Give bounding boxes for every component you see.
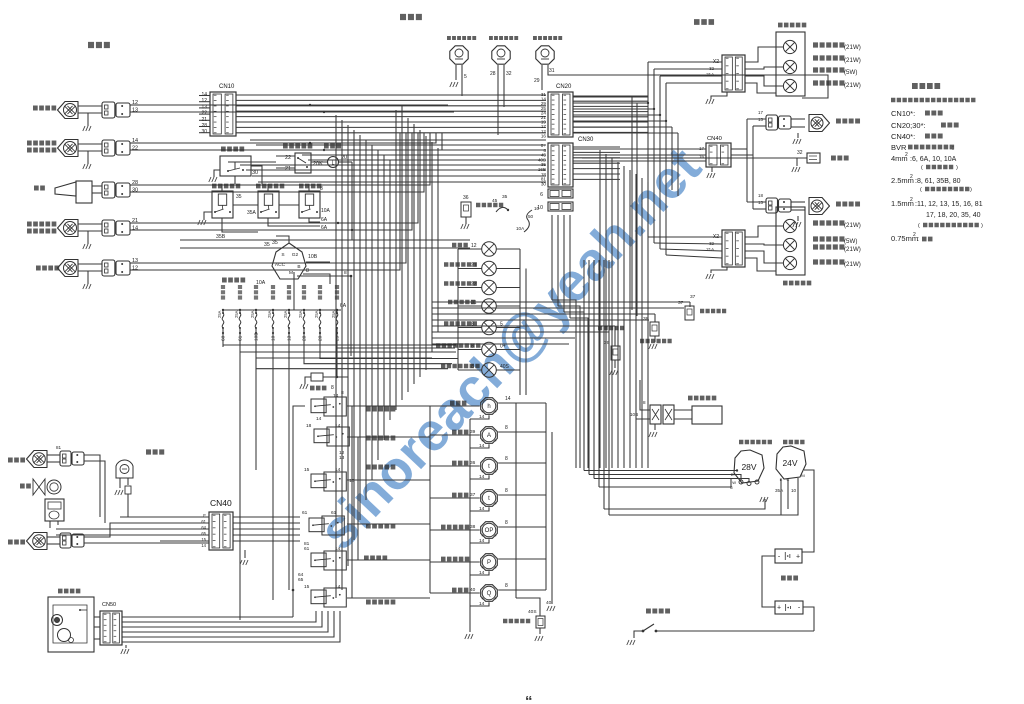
svg-text:(: ( [920, 187, 922, 193]
water temp gauge gauge [481, 490, 498, 507]
junction dots on lamp runs [309, 104, 311, 106]
svg-text:Q: Q [487, 591, 492, 597]
solenoid switch [299, 191, 320, 218]
turn lamp switch box [295, 153, 311, 173]
left front headlamp ground [87, 271, 89, 284]
svg-text:10B: 10B [308, 254, 318, 260]
svg-text:35B: 35B [216, 234, 226, 240]
svg-text:35: 35 [264, 242, 270, 248]
fuse F4 [272, 309, 274, 311]
cab lamp wires [119, 478, 121, 488]
right rear lamp label 4 [813, 80, 844, 85]
right bundle lower verticals [583, 260, 585, 300]
switch feeder wire 4 [347, 523, 430, 525]
work lamp 2 [27, 533, 48, 550]
connector CN40 cab [209, 512, 233, 550]
svg-text:38: 38 [643, 316, 649, 322]
fan switch label [364, 556, 387, 561]
resistor ground [305, 377, 311, 384]
switch feeder wire 3 [347, 479, 430, 481]
charging ground wire [604, 499, 765, 509]
svg-text:35A: 35A [775, 488, 784, 493]
label qianchejia (front frame) [88, 42, 110, 48]
left front width/turn lamp ground [87, 231, 89, 244]
fan motor wires [49, 521, 51, 528]
svg-text:37: 37 [678, 300, 684, 306]
svg-text:35A: 35A [247, 210, 257, 216]
starter feed wire [608, 300, 610, 515]
right rear work lamp connector [766, 115, 778, 130]
fuse F7 [319, 309, 321, 311]
top switch 2 wires [497, 65, 499, 135]
resistor label [310, 386, 326, 391]
oil temp gauge gauge [481, 458, 498, 475]
turn lamp switch label [283, 144, 312, 149]
fuel sensor label [476, 203, 503, 208]
svg-text:13: 13 [132, 108, 138, 114]
svg-text:14: 14 [479, 474, 485, 480]
fuse F3 label [254, 285, 258, 300]
svg-text:): ) [981, 223, 983, 229]
distribution wire h2 [256, 144, 546, 146]
CN40 cab ground [244, 550, 246, 558]
tech note intro line [891, 98, 975, 103]
rear trunk extra verticals [671, 127, 673, 190]
flasher riser [351, 162, 353, 240]
wiper motor box [48, 597, 94, 652]
svg-text:B: B [297, 264, 300, 270]
svg-text:8: 8 [505, 456, 508, 462]
svg-text:40S: 40S [528, 609, 537, 615]
svg-text:28: 28 [132, 180, 138, 186]
battery charge indicator wires [458, 349, 482, 351]
riser wire v8 [377, 150, 379, 460]
fan symbol [33, 479, 45, 495]
cab lamp symbol [116, 460, 133, 478]
CN20 to rear trunk rows [573, 96, 648, 98]
fuse F7 label [318, 285, 322, 300]
knife switch label [646, 608, 670, 613]
wire run lf width lamp [140, 133, 418, 223]
label jiashishi (cab) top [400, 14, 422, 20]
fuse box label [222, 278, 245, 283]
rear feed riser 6 [629, 170, 631, 468]
CN40 cab right wires [233, 516, 300, 518]
svg-text:2: 2 [910, 174, 913, 180]
svg-text:14: 14 [479, 570, 485, 576]
fuse F3 down wire [255, 332, 257, 334]
right front headlamp connector [102, 102, 115, 118]
svg-text:25A: 25A [250, 310, 255, 318]
riser wire v13 [407, 118, 409, 392]
svg-text:(5W): (5W) [844, 238, 857, 245]
svg-text:A: A [487, 433, 491, 439]
connector X2 upper [722, 55, 745, 92]
riser wire v9 [383, 155, 385, 440]
svg-text:(: ( [918, 223, 920, 229]
svg-text:BVR: BVR [891, 143, 907, 152]
svg-text:14: 14 [132, 226, 138, 232]
svg-text:36: 36 [463, 195, 469, 201]
high beam indicator wires [458, 248, 482, 250]
turn switch wires [276, 155, 295, 157]
fuse F2 down wire [239, 332, 241, 334]
air pressure sensor wires [516, 598, 540, 616]
svg-text:61: 61 [304, 546, 310, 552]
svg-text:(: ( [921, 165, 923, 171]
indicator column left bus [457, 249, 459, 370]
distribution wire h9 [258, 181, 546, 183]
front work-lamp switch label [366, 436, 395, 441]
engine oil pressure gauge label [441, 525, 469, 530]
left rear work lamp ground [797, 216, 799, 221]
preheat lamp switch label [489, 36, 518, 40]
fuse F7 down wire [319, 332, 321, 334]
svg-text:40: 40 [470, 587, 476, 593]
right front turn/width lamp symbol [58, 140, 79, 157]
svg-text:ACC: ACC [275, 262, 286, 268]
svg-text:8: 8 [471, 322, 474, 328]
alternator 6 wire [599, 478, 731, 487]
sensor bundle wire 5 [432, 325, 615, 327]
fuel gauge wires [430, 434, 480, 436]
svg-text:(21W): (21W) [844, 261, 861, 268]
fuse F8 label [335, 285, 339, 300]
svg-text:14: 14 [479, 414, 485, 420]
right rear work lamp label [836, 118, 860, 123]
svg-text:10: 10 [534, 206, 540, 211]
svg-text:CN50: CN50 [102, 602, 116, 608]
starter terminal wires [780, 479, 782, 515]
svg-text:6A: 6A [340, 303, 347, 309]
hot-start relay ground [204, 212, 212, 220]
battery label [781, 576, 798, 581]
svg-text:17: 17 [758, 110, 763, 115]
svg-text:61: 61 [302, 510, 308, 516]
fan motor box [45, 499, 64, 521]
left rear lamp label 1 [813, 220, 844, 225]
fan switch box [311, 553, 326, 567]
svg-text:14: 14 [479, 443, 485, 449]
fuse F1 label [221, 285, 225, 300]
svg-text:25A: 25A [283, 310, 288, 318]
oil pressure sensor [650, 322, 659, 336]
fuse collector wire D [256, 334, 448, 369]
water temp sensor label [700, 309, 726, 313]
riser wire v4 [353, 130, 355, 540]
svg-text:CN40: CN40 [210, 498, 232, 508]
sensor bundle wire 2 [432, 307, 684, 309]
svg-text:G2: G2 [292, 252, 299, 258]
CN40 rear wires right [731, 148, 747, 150]
left rear combo lamp 1 [783, 219, 796, 232]
riser wire v17 [431, 142, 433, 352]
horn button ground [214, 170, 220, 177]
water temp gauge label [452, 493, 468, 498]
fuse collector wire B [240, 351, 456, 353]
fuse F6 label [302, 285, 306, 300]
start relay label [256, 184, 284, 189]
relay interconnect wires [233, 204, 258, 206]
right front turn/width lamp ground [87, 151, 89, 164]
resistor wire [323, 377, 348, 398]
fuse F2 label [238, 285, 242, 300]
connector 10 (2-pin) [548, 202, 573, 211]
svg-text:31: 31 [549, 68, 555, 74]
left turn indicator lamp [482, 261, 497, 276]
sensor bundle wire 1 [432, 301, 690, 303]
svg-text:8: 8 [344, 270, 347, 276]
hot-start relay [212, 191, 233, 218]
high beam indicator lamp [482, 242, 497, 257]
svg-text:65: 65 [298, 577, 304, 583]
svg-text:L: L [332, 161, 335, 167]
svg-text:36: 36 [470, 460, 476, 466]
flameout solenoid connector [650, 405, 661, 424]
gauge 14 return bus [469, 419, 471, 632]
svg-text:40: 40 [546, 600, 552, 606]
fuse F4 label [271, 285, 275, 300]
svg-text::11, 12, 13, 15, 16, 81: :11, 12, 13, 15, 16, 81 [915, 201, 983, 208]
svg-text:10B: 10B [630, 412, 638, 417]
riser wire v1 [335, 115, 337, 598]
front work-lamp switch box [314, 429, 329, 443]
top switch 1 wires [455, 65, 457, 80]
svg-text:CN30: CN30 [578, 137, 594, 143]
wiper switch label [366, 600, 395, 605]
svg-text:6A: 6A [321, 225, 328, 231]
svg-text:22: 22 [132, 146, 138, 152]
switch feeder wire 1 [347, 405, 430, 407]
fuel sensor curve [496, 207, 508, 212]
svg-text:31: 31 [471, 300, 477, 306]
ignition B wire right [297, 276, 351, 356]
riser wire v14 [413, 124, 415, 384]
svg-text:12: 12 [132, 266, 138, 272]
horn symbol [55, 182, 76, 196]
svg-text:14: 14 [316, 416, 322, 422]
distribution wire h7 [246, 169, 546, 171]
air pressure warning indicator wires [458, 369, 482, 371]
air pressure sensor label [503, 619, 530, 624]
svg-text:17, 18, 20, 35, 40: 17, 18, 20, 35, 40 [926, 212, 981, 219]
gear pressure gauge wires [430, 561, 480, 563]
svg-text:24V: 24V [782, 458, 797, 468]
flameout solenoid label [688, 396, 716, 401]
top switch 3 wires [541, 65, 543, 90]
charging ground [760, 497, 768, 502]
svg-text:14: 14 [479, 601, 485, 607]
sensor bundle wire 7 [432, 337, 575, 339]
svg-text:8: 8 [505, 520, 508, 526]
fuse F2 [239, 309, 241, 311]
battery 2 [775, 601, 803, 614]
fuse collector wire A [223, 344, 456, 346]
horn connector [102, 182, 115, 198]
water temp sensor riser [689, 302, 691, 307]
CN40 rear wires left [573, 148, 706, 150]
switch feeder wire 5 [347, 559, 430, 561]
left rear combo label bottom [783, 281, 811, 286]
rear feed riser 2 [605, 154, 607, 468]
X2 lower wires left [648, 236, 722, 238]
starter M to battery wire [802, 470, 814, 552]
brake indicator label [448, 300, 475, 305]
fuel sensor 36 box [461, 202, 471, 217]
rear feed riser 4 [617, 162, 619, 468]
svg-text:35: 35 [272, 240, 278, 246]
riser wire v18 [437, 148, 439, 332]
resistor box [311, 373, 323, 381]
wiper box to CN50 wires [94, 616, 100, 618]
work lamp 1 connector [60, 451, 71, 466]
right rear lamp label 2 [813, 55, 844, 60]
brake lamp switch label [533, 36, 562, 40]
riser wire v11 [395, 110, 397, 410]
svg-text:10A: 10A [321, 208, 331, 214]
wire run lf headlamp [140, 133, 406, 263]
CN40 cab left wires [160, 516, 209, 518]
left front headlamp wires [78, 263, 102, 265]
svg-text:15: 15 [304, 467, 310, 473]
hot-oil sensor riser [614, 326, 616, 346]
svg-text:25A: 25A [298, 310, 303, 318]
right front headlamp wires [78, 105, 102, 107]
left front width/turn lamp symbol [58, 220, 79, 237]
left rear lamp label 4 [813, 259, 844, 264]
svg-text:12: 12 [132, 100, 138, 106]
svg-text:(21W): (21W) [844, 57, 861, 64]
svg-text:25A: 25A [217, 310, 222, 318]
left front headlamp label [36, 266, 59, 271]
ignition wires [276, 236, 289, 243]
right rear work lamp ground [797, 133, 799, 138]
switch feeder wire 6 [347, 597, 430, 599]
alternator feed wires [583, 300, 585, 471]
svg-text:12: 12 [471, 243, 477, 249]
horn label [34, 186, 45, 191]
alternator 28V [734, 450, 764, 483]
svg-text:25A: 25A [267, 310, 272, 318]
hour meter gauge [481, 398, 498, 415]
CN20/CN30 right fan-out wires [573, 95, 648, 97]
rear feed riser 7 [635, 174, 637, 468]
svg-text::8, 61, 35B, 80: :8, 61, 35B, 80 [915, 178, 961, 185]
svg-text::: : [952, 145, 954, 152]
work lamp 2 wires [47, 536, 60, 538]
right rear work lamp [809, 115, 830, 132]
hot-start relay label [212, 184, 240, 189]
svg-text:8: 8 [643, 400, 646, 405]
right front headlamp symbol [58, 102, 79, 119]
flasher wires [311, 161, 328, 163]
left rear work lamp connector [766, 198, 778, 213]
water temp sensor [685, 306, 694, 320]
battery interconnect wire [762, 556, 775, 607]
right front turn/width lamp connector [102, 140, 115, 156]
hot oil sensor ground [614, 360, 616, 368]
air pressure gauge label [452, 588, 468, 593]
left rear work lamp label [836, 201, 860, 206]
svg-text:CN40*:: CN40*: [891, 132, 915, 141]
park brake indicator label [444, 321, 477, 326]
fuse F6 down wire [303, 332, 305, 334]
svg-text:21: 21 [132, 218, 138, 224]
svg-text:8: 8 [505, 583, 508, 589]
oil temp gauge label [452, 461, 468, 466]
resistor riser [336, 348, 338, 377]
right rear lamp label 1 [813, 42, 844, 47]
fuel gauge label [452, 430, 468, 435]
svg-text:+: + [796, 554, 800, 561]
fan label [20, 484, 31, 489]
battery charge indicator label [436, 343, 480, 348]
right front headlamp ground [87, 113, 89, 126]
svg-text:2: 2 [905, 152, 908, 158]
sensor bundle wire 6 [432, 331, 609, 333]
solenoid switch label [299, 184, 321, 189]
rear trunk verticals [647, 62, 649, 237]
svg-text:25A: 25A [314, 310, 319, 318]
right turn indicator label [444, 281, 477, 286]
right rear combo lamp label [778, 23, 806, 28]
left front headlamp connector [102, 260, 115, 276]
distribution wire h1 [250, 139, 546, 141]
svg-text:35: 35 [502, 194, 508, 200]
wire curl 10A [524, 210, 532, 232]
hot oil sensor label [598, 326, 624, 330]
oil temp gauge wires [430, 465, 480, 467]
battery 2 negative wire [803, 607, 814, 631]
rear left edge verticals to sensors [631, 97, 633, 310]
svg-text:39: 39 [470, 429, 476, 435]
park brake indicator lamp [482, 320, 497, 335]
svg-text:30: 30 [132, 188, 138, 194]
rear feed riser 9 [647, 182, 649, 468]
horn wires [92, 185, 102, 187]
riser wire v5 [359, 135, 361, 520]
riser wire v10 [389, 160, 391, 420]
svg-text:25A: 25A [331, 310, 336, 318]
svg-text:22: 22 [471, 282, 477, 288]
svg-text:30: 30 [252, 170, 258, 176]
starter 24V [776, 446, 806, 479]
distribution wire h8 [252, 175, 546, 177]
battery charge indicator lamp [482, 342, 497, 357]
gear pressure gauge label [441, 557, 469, 562]
svg-text:h: h [487, 404, 490, 410]
sensor bundle wire 8 [432, 343, 569, 345]
label jiashishi (cab) mid-left [146, 449, 164, 454]
hour meter wires [430, 405, 480, 407]
left turn indicator label [444, 262, 477, 267]
svg-text:25A: 25A [234, 310, 239, 318]
fuse F8 [336, 309, 338, 311]
rear feed riser 5 [623, 166, 625, 468]
CN50 ground [125, 645, 127, 648]
CN30 lower bend wires [552, 300, 576, 468]
X2 upper ground [711, 92, 727, 99]
flameout solenoid ground [654, 424, 656, 430]
svg-text:18: 18 [758, 193, 763, 198]
CN50 wires right [122, 616, 293, 618]
top switch 1 [450, 46, 468, 64]
work lamp switch box [309, 518, 324, 532]
riser wire v16 [425, 136, 427, 370]
svg-text:14: 14 [132, 138, 138, 144]
switch feeder wire 2 [347, 436, 430, 438]
svg-text:“: “ [525, 693, 533, 704]
